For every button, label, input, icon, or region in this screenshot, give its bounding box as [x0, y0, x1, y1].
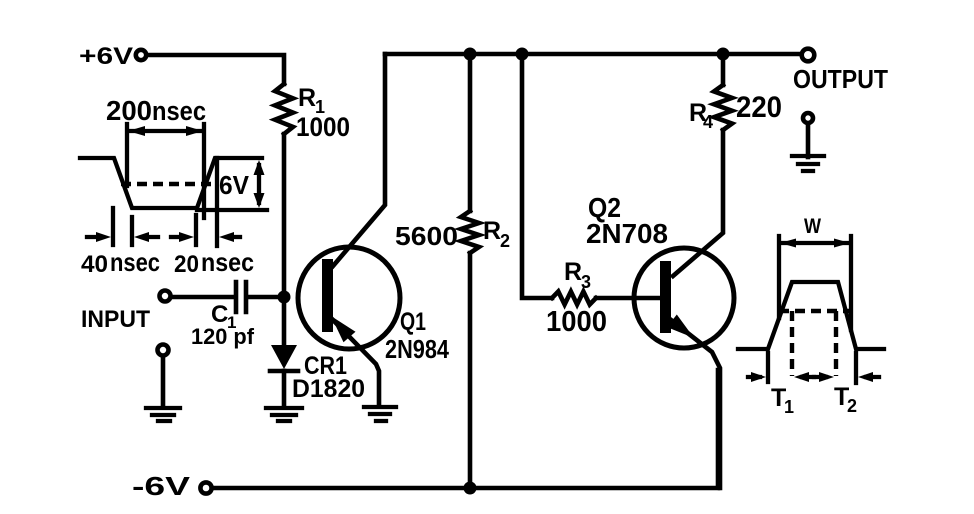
- svg-text:1000: 1000: [296, 112, 350, 142]
- svg-text:nsec: nsec: [110, 247, 160, 277]
- svg-text:220: 220: [736, 91, 782, 124]
- svg-text:R: R: [483, 217, 501, 245]
- svg-text:+6V: +6V: [79, 43, 133, 70]
- svg-text:INPUT: INPUT: [81, 306, 150, 333]
- svg-text:2N984: 2N984: [385, 334, 449, 364]
- svg-text:2: 2: [847, 396, 857, 416]
- svg-text:-6V: -6V: [132, 471, 191, 501]
- svg-text:2: 2: [500, 231, 510, 251]
- svg-text:nsec: nsec: [152, 96, 206, 126]
- svg-text:1000: 1000: [546, 306, 607, 338]
- svg-text:6V: 6V: [219, 170, 250, 200]
- svg-text:D1820: D1820: [292, 375, 365, 403]
- svg-text:200: 200: [106, 95, 152, 126]
- svg-text:120 pf: 120 pf: [191, 324, 255, 349]
- svg-text:20: 20: [174, 251, 199, 278]
- svg-text:2N708: 2N708: [586, 218, 668, 249]
- svg-text:OUTPUT: OUTPUT: [793, 64, 888, 94]
- svg-text:1: 1: [784, 397, 794, 417]
- svg-text:Q1: Q1: [400, 308, 426, 336]
- svg-text:nsec: nsec: [201, 247, 254, 277]
- svg-text:3: 3: [581, 272, 591, 292]
- svg-text:4: 4: [703, 112, 713, 132]
- svg-text:40: 40: [81, 251, 108, 278]
- svg-text:W: W: [804, 215, 821, 238]
- svg-text:R: R: [564, 258, 582, 286]
- svg-text:R: R: [298, 84, 316, 112]
- svg-text:5600: 5600: [395, 221, 458, 251]
